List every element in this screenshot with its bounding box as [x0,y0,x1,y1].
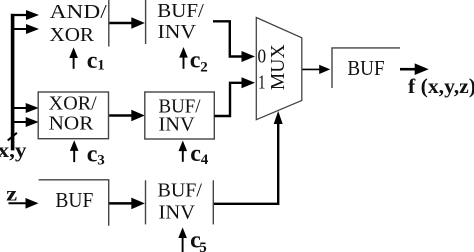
control c4 [182,148,184,162]
svg-text:5: 5 [199,240,207,252]
svg-text:INV: INV [159,113,196,135]
svg-text:0: 0 [258,46,267,68]
wire AND/XOR to BUF/INV 1 [110,22,134,25]
svg-text:z: z [6,182,17,206]
control c5 [182,235,184,252]
wire bus branch 4 [13,121,27,123]
wire MUX output [302,68,321,70]
svg-text:x,y: x,y [0,138,27,162]
svg-text:1: 1 [258,71,266,93]
wire BUF to BUF/INV 3 [109,202,133,205]
svg-text:INV: INV [159,202,196,224]
svg-text:3: 3 [97,153,105,169]
mux U1 trapezoid [256,18,302,120]
svg-text:XOR: XOR [50,24,95,46]
svg-text:c: c [87,142,98,168]
wire BUF/INV 1 to MUX input 0 [213,21,243,56]
svg-text:NOR: NOR [49,113,94,135]
wire bus branch 1 [11,14,27,16]
svg-text:1: 1 [97,57,105,73]
svg-text:c: c [190,141,201,167]
input bus x,y [11,14,15,151]
wire MUX select from BUF/INV 3 [214,121,278,204]
svg-text:BUF/: BUF/ [158,180,203,202]
svg-text:BUF/: BUF/ [157,0,204,22]
wire XOR/NOR to BUF/INV 2 [109,114,133,117]
svg-text:f (x,y,z): f (x,y,z) [408,74,474,98]
wire final output arrow [400,68,416,71]
svg-text:2: 2 [200,59,208,75]
bus slash mark [8,133,17,141]
wire bus branch 2 [13,28,27,30]
BUF block right (left+top borders) [332,48,400,88]
svg-text:BUF: BUF [55,188,93,212]
svg-text:c: c [87,48,98,74]
BUF/INV block 3 (left+right borders) [145,180,147,224]
BUF block bottom (top+right borders) [39,180,109,226]
control c1 [73,55,75,69]
svg-text:INV: INV [158,21,197,43]
BUF/INV block 2 [145,92,215,139]
wire z input arrow [9,202,28,204]
AND/XOR block (right border only) [108,0,110,47]
wire BUF/INV 2 to MUX input 1 [214,83,243,116]
svg-text:AND/: AND/ [50,1,108,23]
svg-text:BUF: BUF [347,56,384,80]
BUF/INV block 1 (left border only) [145,0,147,44]
control c3 [73,148,75,162]
svg-text:MUX: MUX [267,44,289,91]
svg-text:4: 4 [201,152,209,168]
wire bus branch 3 [13,107,27,109]
control c2 [183,55,185,69]
svg-text:XOR/: XOR/ [49,92,97,114]
XOR/NOR block [38,92,108,139]
svg-text:c: c [190,48,201,74]
